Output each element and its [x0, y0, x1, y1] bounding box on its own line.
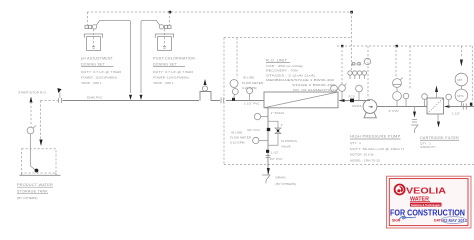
svg-text:0-20 GPM: 0-20 GPM	[242, 86, 257, 90]
pipe pump to RO	[345, 100, 371, 102]
instrument PI concentrate	[254, 113, 268, 119]
flushing valve	[275, 128, 281, 134]
signal arrow down right	[460, 60, 463, 67]
instrument PS pump	[393, 92, 402, 107]
svg-text:POWER : 110V/1Ph/60Hz: POWER : 110V/1Ph/60Hz	[81, 76, 117, 80]
svg-text:Solutions & Technologies: Solutions & Technologies	[411, 203, 441, 207]
wire signal x237 to analyser	[236, 38, 238, 79]
label dosing set 2	[153, 56, 195, 86]
skid boundary top	[224, 37, 352, 39]
wire dosing discharge 2	[141, 21, 160, 93]
wire signal drop x342	[341, 46, 343, 84]
svg-text:FLUSHING: FLUSHING	[281, 139, 298, 143]
valve V1 scope break	[57, 88, 61, 103]
svg-text:IN LINE: IN LINE	[231, 131, 242, 135]
level probe	[31, 134, 36, 170]
drain arrow	[267, 168, 270, 175]
label drain	[276, 176, 296, 186]
label high pressure pump	[350, 134, 404, 163]
svg-text:(BY OTHERS): (BY OTHERS)	[276, 182, 296, 186]
signal line top dosing control	[87, 11, 352, 13]
svg-text:1 1/2" PVC: 1 1/2" PVC	[244, 102, 260, 106]
instrument PI feed 1	[339, 84, 347, 101]
svg-text:(BY OTHERS): (BY OTHERS)	[17, 196, 37, 200]
svg-text:DUTY: 3.7 L/h @ 7 BAR: DUTY: 3.7 L/h @ 7 BAR	[153, 70, 194, 74]
drain between pump and filter	[411, 107, 418, 134]
svg-text:3/4" FCV: 3/4" FCV	[247, 128, 261, 132]
instrument PI filter out	[446, 94, 452, 106]
wire signal drop x410	[409, 46, 411, 90]
wire signal drop x396	[395, 46, 397, 78]
injection arrow 1	[129, 95, 132, 100]
sample point circle	[202, 86, 207, 91]
skid boundary left vertical	[223, 38, 225, 165]
pipe main permeate line	[63, 100, 200, 102]
injection arrow 2	[140, 95, 143, 100]
svg-text:1" SS316: 1" SS316	[271, 111, 285, 115]
pipe bridge crossover	[200, 92, 220, 101]
svg-text:QTY : 1: QTY : 1	[350, 141, 361, 145]
pipe product water by others	[41, 100, 59, 102]
instrument switch pair B	[357, 71, 366, 79]
svg-text:FLOW METER: FLOW METER	[230, 136, 252, 140]
pressure regulator dome	[393, 78, 403, 92]
tank T2 chemical	[155, 29, 173, 51]
svg-text:0-10 GPM: 0-10 GPM	[230, 141, 245, 145]
svg-text:STAGE 2 BW30-400: STAGE 2 BW30-400	[292, 83, 335, 87]
node probe tip	[35, 169, 39, 173]
svg-text:DOSING SET: DOSING SET	[81, 61, 105, 66]
svg-text:MODEL : CRN 70-33: MODEL : CRN 70-33	[350, 158, 380, 162]
svg-text:DUTY: 56.22cu.m/h @ 190m H: DUTY: 56.22cu.m/h @ 190m H	[350, 147, 404, 151]
svg-text:IN LINE: IN LINE	[243, 76, 254, 80]
wire signal drop to dosing pump 1	[87, 12, 89, 25]
node dot dosing junction	[169, 11, 172, 14]
svg-text:PRODUCT WATER: PRODUCT WATER	[17, 182, 53, 187]
instrument DPS	[455, 86, 468, 107]
instrument PI filter in	[422, 94, 428, 107]
valve concentrate	[266, 156, 271, 158]
arrow into filter	[444, 105, 450, 108]
skid boundary bottom	[224, 164, 474, 166]
filter drain arrow	[437, 114, 439, 121]
instrument switch pair A	[348, 71, 357, 79]
pipe to RO inlet	[226, 100, 264, 102]
svg-text:SS316: SS316	[352, 104, 362, 108]
svg-text:TANK : 200 L: TANK : 200 L	[81, 81, 102, 85]
label in line flow meter 10	[230, 131, 252, 145]
RO unit text block	[266, 57, 337, 92]
node dot top right	[350, 11, 353, 14]
node dot x342	[341, 45, 343, 47]
svg-text:R.O. UNIT: R.O. UNIT	[266, 57, 288, 62]
node feed edge	[470, 103, 473, 106]
instrument QIT	[230, 80, 238, 99]
instrument PI on RO vessel	[331, 85, 338, 92]
veolia logo	[395, 185, 405, 195]
svg-text:POST-CHLORINATION: POST-CHLORINATION	[153, 56, 195, 61]
drain funnel	[262, 175, 270, 184]
signal drop to DPI	[460, 46, 462, 58]
svg-text:pH ADJUSTMENT: pH ADJUSTMENT	[81, 56, 113, 61]
svg-text:DN40 PVC: DN40 PVC	[87, 96, 103, 100]
pump HP high pressure	[363, 100, 377, 118]
node junction instruments	[232, 98, 235, 101]
tank T1 chemical	[84, 29, 102, 51]
vent arrow filter	[435, 86, 438, 93]
wire dosing discharge 1	[96, 21, 130, 93]
signal arrow up	[30, 97, 33, 103]
pipe feed inlet right	[449, 106, 474, 108]
svg-text:VALVE: VALVE	[281, 144, 291, 148]
label product tank	[17, 182, 53, 200]
svg-text:CAP : 250 cu.m/day: CAP : 250 cu.m/day	[266, 64, 304, 68]
label flushing valve	[281, 139, 298, 148]
svg-text:1/2" PVC: 1/2" PVC	[270, 157, 284, 161]
svg-text:2" PVC: 2" PVC	[389, 109, 400, 113]
wire signal drop to dosing pump 2	[168, 12, 170, 25]
svg-text:POWER: 110V/1Ph/60Hz: POWER: 110V/1Ph/60Hz	[153, 76, 189, 80]
signal line to level transmitter	[30, 102, 32, 127]
valve V3 inlet	[463, 104, 466, 110]
product storage tank	[20, 149, 61, 176]
cartridge filter F1	[427, 98, 444, 114]
valve FCV concentrate	[267, 128, 270, 131]
concentrate line down from RO	[267, 108, 269, 175]
svg-text:1": 1"	[281, 123, 284, 127]
instrument FI permeate	[247, 88, 253, 101]
instrument PI pump	[403, 93, 409, 106]
svg-text:DRAIN: DRAIN	[276, 176, 286, 180]
svg-text:DOSING SET: DOSING SET	[153, 61, 177, 66]
svg-text:FLOW METER: FLOW METER	[242, 81, 264, 85]
svg-text:DPS: DPS	[457, 94, 463, 98]
signal dashes to controller	[351, 63, 364, 65]
svg-text:MEMBRANES/STAGE 1 BW30-400: MEMBRANES/STAGE 1 BW30-400	[266, 78, 334, 82]
wire signal right edge	[471, 46, 473, 101]
RO membrane vessel	[264, 92, 338, 108]
svg-text:HIGH PRESSURE PUMP: HIGH PRESSURE PUMP	[350, 134, 401, 139]
pipe drop to tank	[40, 101, 42, 140]
svg-text:VEOLIA: VEOLIA	[406, 186, 446, 196]
svg-text:START/STOP R.O.: START/STOP R.O.	[18, 91, 47, 95]
svg-text:RECOVERY : 70%: RECOVERY : 70%	[266, 69, 298, 73]
instrument controller circle	[364, 58, 370, 64]
svg-text:CARTRIDGE FILTER: CARTRIDGE FILTER	[420, 135, 459, 140]
pipe filter to pump	[377, 106, 427, 108]
valve V2	[221, 98, 224, 104]
svg-text:STORAGE TANK: STORAGE TANK	[17, 189, 48, 194]
instrument LT	[27, 126, 36, 134]
svg-text:1 1/2": 1 1/2"	[271, 151, 279, 155]
flushing bypass loop	[268, 121, 278, 145]
instrument PI feed 2	[356, 85, 363, 100]
arrow into tank	[39, 140, 42, 147]
svg-text:MOTOR: 15 k.W.: MOTOR: 15 k.W.	[350, 153, 374, 157]
node concentrate junction	[266, 150, 269, 153]
sample point arrow	[204, 79, 207, 85]
svg-text:FCV: FCV	[349, 95, 356, 99]
signal line y46	[337, 45, 472, 47]
construction stamp	[387, 176, 472, 228]
dosing pump P2	[159, 25, 171, 29]
instrument FI concentrate	[253, 137, 268, 143]
label dosing set 1	[81, 56, 122, 86]
svg-text:FOR CONSTRUCTION: FOR CONSTRUCTION	[390, 209, 465, 218]
feed arrow into RO	[339, 99, 345, 102]
instrument DPI	[455, 73, 468, 86]
svg-text:CAPACITY :: CAPACITY :	[420, 145, 437, 149]
label in line flow meter 20	[242, 76, 264, 91]
svg-text:DPI: DPI	[457, 78, 462, 82]
valve FCV feed	[350, 99, 354, 103]
svg-text:1 1/2": 1 1/2"	[452, 112, 460, 116]
wire signal drop to pump	[367, 46, 369, 97]
svg-text:DUTY: 3.7 L/h @ 7 BAR: DUTY: 3.7 L/h @ 7 BAR	[81, 70, 122, 74]
node dot x398	[396, 45, 398, 47]
dosing pump P1	[85, 25, 97, 29]
wire signal vertical x351	[351, 12, 353, 70]
label cartridge filter	[420, 135, 459, 149]
svg-text:STAGES : 2 (2x4) (1x4): STAGES : 2 (2x4) (1x4)	[266, 73, 315, 77]
svg-text:TANK : 200 L: TANK : 200 L	[153, 81, 174, 85]
